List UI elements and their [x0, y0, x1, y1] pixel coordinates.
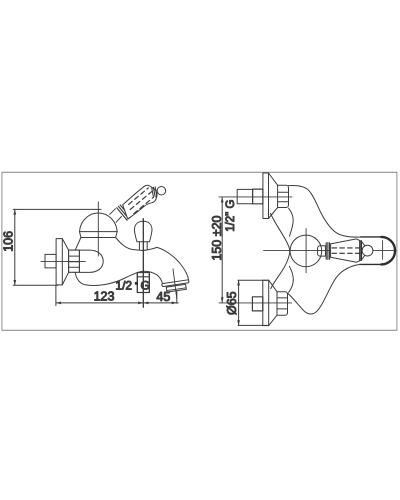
- svg-text:G: G: [141, 279, 150, 293]
- wall nipple centerline: [41, 260, 85, 262]
- arrow up 65: [237, 280, 240, 285]
- svg-text:45: 45: [156, 290, 170, 304]
- diverter centerline (heavy): [142, 219, 144, 308]
- ext bottom 65: [238, 324, 269, 326]
- top escutcheon plate: [263, 173, 269, 219]
- svg-text:1/2: 1/2: [115, 278, 132, 292]
- frame border: [2, 172, 397, 330]
- body upper S outline: [289, 185, 361, 237]
- ext line left (wall plane): [55, 285, 57, 305]
- body left slant under dome: [75, 238, 81, 251]
- top nut: [278, 185, 289, 207]
- arrow up 150: [221, 197, 224, 202]
- knob end outline: [361, 237, 395, 265]
- spout outlet axis line: [173, 269, 177, 299]
- cartridge circle: [290, 235, 322, 267]
- bottom escutcheon plate: [263, 280, 269, 325]
- escutcheon plate: [56, 239, 62, 285]
- top pipe nipple: [237, 189, 252, 203]
- top nut facets: [278, 192, 289, 202]
- wall nut: [69, 250, 80, 272]
- spout end flange: [162, 280, 189, 287]
- arrow down 106: [13, 280, 16, 285]
- dimension 106 line: [14, 209, 16, 285]
- handle collar: [117, 205, 131, 220]
- dimension line 123 / 45: [56, 302, 178, 304]
- body left concave outline: [271, 214, 290, 289]
- bottom connection centerline: [219, 302, 292, 304]
- knob arc thick: [381, 237, 395, 265]
- dome base band: [80, 232, 118, 238]
- handle grip: [123, 185, 157, 219]
- wall nut facet lines: [69, 256, 80, 267]
- diverter stem: [139, 242, 147, 250]
- escutcheon cone bottom: [62, 272, 68, 285]
- handle ferrule: [152, 187, 157, 197]
- arrow right 123: [138, 302, 143, 305]
- dimension 106 extension line top: [13, 208, 101, 210]
- handle ferrule 2: [360, 241, 362, 260]
- body lower S outline: [288, 264, 361, 314]
- arrow left 123: [56, 302, 61, 305]
- neck ridge from top nut: [289, 208, 294, 236]
- handle stem: [109, 208, 122, 222]
- shower outlet nub: [137, 273, 149, 293]
- svg-text:150 ±20: 150 ±20: [210, 215, 224, 260]
- arrow left 45: [143, 302, 148, 305]
- body underside sweep: [75, 271, 162, 285]
- svg-text:Ø65: Ø65: [225, 291, 239, 315]
- svg-text:123: 123: [94, 290, 115, 304]
- dome cap: [80, 213, 118, 232]
- grip dashes: [332, 248, 360, 253]
- main horizontal centerline: [264, 250, 396, 252]
- bottom nut facets: [277, 298, 288, 309]
- grip facet dashes: [129, 188, 153, 214]
- ext top 65: [238, 279, 269, 281]
- dim 150 line: [221, 198, 223, 303]
- arrow down 65: [237, 320, 240, 325]
- arrow right 45: [172, 302, 177, 305]
- grip cone tip convergent lines: [362, 241, 366, 259]
- ext line right (outlet): [176, 291, 178, 304]
- bottom nut: [277, 292, 288, 316]
- handle boss: [318, 246, 326, 256]
- dome centerline: [97, 202, 99, 256]
- dim line diameter 65: [238, 280, 240, 325]
- handle (left view): [109, 185, 165, 222]
- dimension 106 extension line bottom: [13, 284, 58, 286]
- handle grip cone: [331, 239, 362, 262]
- aerator: [166, 284, 186, 292]
- neck ridge from bottom nut: [289, 266, 294, 292]
- handle ferrule 1: [326, 243, 329, 260]
- knob face line: [382, 241, 384, 260]
- svg-text:1/2" G: 1/2" G: [225, 200, 237, 232]
- handle tip ball front: [362, 245, 373, 256]
- inch square mark: [135, 282, 138, 285]
- escutcheon cone top: [62, 239, 68, 251]
- body right curve to spout: [116, 238, 189, 281]
- arrow up 106: [13, 209, 16, 214]
- top hex segment: [253, 189, 263, 204]
- svg-text:106: 106: [2, 231, 16, 252]
- bottom escutcheon cone: [269, 280, 277, 325]
- circle vertical centerline: [305, 229, 307, 273]
- outlet flange line: [137, 276, 149, 278]
- diverter knob: [134, 221, 152, 242]
- wall hex nipple: [45, 254, 56, 268]
- top escutcheon cone: [269, 173, 278, 219]
- bottom pipe nipple: [252, 297, 262, 311]
- valve D-housing: [79, 250, 103, 272]
- top connection centerline: [219, 196, 292, 198]
- handle tip ball: [157, 186, 166, 195]
- arrow down 150: [221, 297, 224, 302]
